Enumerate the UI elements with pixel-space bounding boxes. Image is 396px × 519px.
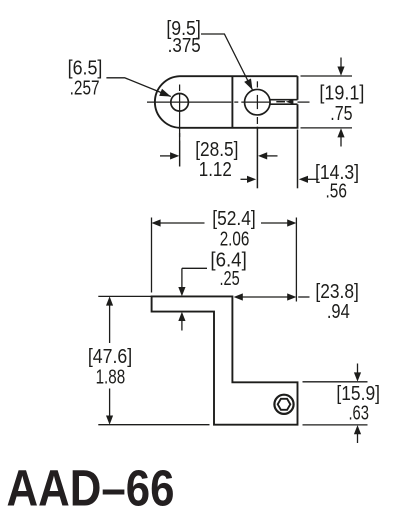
svg-text:[19.1]: [19.1]	[319, 82, 364, 104]
dim 47.6/1.88 extension lines	[98, 295, 152, 297]
svg-text:[23.8]: [23.8]	[315, 281, 358, 303]
svg-text:[52.4]: [52.4]	[212, 208, 256, 230]
dim 28.5 right arrow	[267, 155, 278, 157]
dim 19.1 top arrow	[340, 58, 342, 69]
leader line 9.5	[201, 34, 253, 90]
slot / slit from bore to right edge	[270, 99, 298, 101]
svg-text:.375: .375	[168, 35, 201, 57]
dim 15.9 top arrow	[357, 364, 359, 375]
right hole (9.5 mm bore)	[245, 89, 271, 115]
dim 14.3 left arrow	[241, 178, 249, 180]
leader line 6.5	[106, 78, 170, 97]
svg-text:1.88: 1.88	[96, 367, 126, 389]
dim 6.4 lower arrow	[181, 320, 183, 331]
dim 14.3/.56 extension line (part right edge)	[297, 130, 299, 189]
dim 28.5/1.12 extension line left	[179, 133, 181, 167]
left hole (6.5 mm)	[171, 94, 189, 112]
vertical centerline left hole	[179, 85, 181, 92]
dim 28.5 extension line right (hole center)	[256, 127, 258, 189]
horizontal centerline through holes	[147, 101, 231, 103]
top view part outline (rounded-end clamp body)	[155, 76, 298, 128]
socket screw symbol hex recess	[278, 399, 291, 410]
svg-text:2.06: 2.06	[220, 229, 250, 251]
dim 19.1 bottom arrow	[340, 136, 342, 147]
svg-text:AAD–66: AAD–66	[7, 460, 175, 517]
svg-text:[6.5]: [6.5]	[68, 58, 103, 80]
dim 15.9/.63 extension lines	[303, 381, 368, 383]
dim 23.8/.94 dimension line with outward arrows	[242, 296, 288, 298]
dim 23.8 tail	[298, 296, 309, 298]
slot centre dash	[276, 101, 285, 103]
socket screw symbol outer circle	[274, 395, 293, 414]
svg-text:.25: .25	[220, 268, 240, 290]
svg-text:1.12: 1.12	[199, 159, 232, 181]
svg-text:.257: .257	[70, 78, 100, 100]
dim 14.3 right arrow	[308, 178, 319, 180]
svg-text:.63: .63	[348, 403, 369, 425]
dim 47.6 dimension line with outward arrows	[109, 305, 111, 344]
svg-text:.75: .75	[330, 103, 352, 125]
dim 15.9 bottom arrow	[357, 433, 359, 444]
side view part profile (Z-shaped section)	[152, 296, 298, 424]
dim 6.4/.25 leader	[182, 267, 207, 269]
slot arrowhead	[286, 99, 294, 104]
svg-text:[47.6]: [47.6]	[88, 346, 132, 368]
svg-text:[28.5]: [28.5]	[195, 139, 238, 161]
dim 52.4/2.06 extension lines	[151, 218, 153, 293]
top view divider line (flange/block boundary)	[231, 76, 233, 128]
dim 28.5 left arrow	[160, 155, 171, 157]
vertical centerline right hole	[256, 81, 258, 87]
dim 19.1/.75 extension lines	[301, 75, 353, 77]
svg-text:.56: .56	[326, 181, 347, 203]
svg-text:.94: .94	[327, 301, 350, 323]
dim 52.4 dimension line with outward arrows	[160, 222, 205, 224]
